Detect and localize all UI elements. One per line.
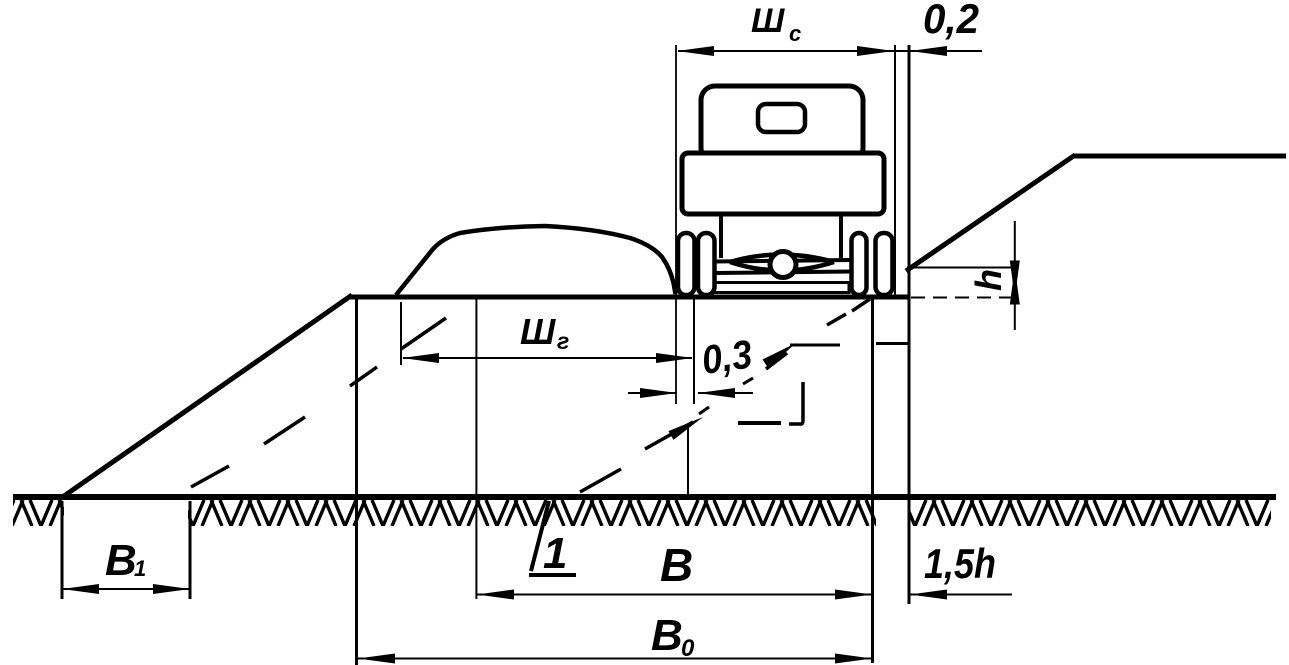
dashed slope line left d3 bbox=[350, 367, 377, 386]
dashed right small dash bbox=[743, 378, 753, 384]
dashed slope line left d2 bbox=[264, 417, 305, 444]
extension line x62 B1 left bbox=[61, 501, 64, 599]
truck chassis verticals bbox=[719, 214, 723, 258]
dashed diagonal to wheel d4 bbox=[827, 314, 846, 325]
dashed corner bottom dash bbox=[738, 421, 781, 425]
truck leaf spring lens bbox=[730, 255, 834, 271]
truck wheel outer-left bbox=[678, 233, 695, 295]
extension line x694 bbox=[693, 296, 695, 404]
svg-text:0,2: 0,2 bbox=[923, 0, 979, 42]
extension line x476 B left bbox=[475, 296, 477, 599]
svg-text:В: В bbox=[105, 536, 137, 585]
soil mound bbox=[396, 226, 676, 295]
truck wheel inner-right bbox=[852, 233, 867, 295]
extension line x895 truck right bbox=[894, 45, 896, 296]
dimension B1 line bbox=[63, 588, 189, 590]
dimension 0,3 lines bbox=[628, 392, 677, 394]
dashed diagonal to wheel d5 bbox=[852, 299, 870, 311]
truck cab bbox=[701, 86, 863, 162]
extension line x356 B0 left bbox=[355, 296, 358, 665]
truck wheel outer-right bbox=[876, 233, 893, 295]
right slope bbox=[906, 155, 1075, 271]
dimension Shg line bbox=[403, 357, 692, 359]
dimension 1,5h line bbox=[910, 594, 1012, 596]
extension line x190 B1 right bbox=[189, 501, 192, 599]
svg-text:h: h bbox=[968, 269, 1009, 291]
svg-text:1: 1 bbox=[134, 556, 146, 581]
truck rear window bbox=[758, 104, 805, 132]
svg-text:0: 0 bbox=[681, 635, 695, 662]
h extension top bbox=[907, 267, 1017, 269]
extension line x909 bbox=[908, 45, 911, 604]
svg-text:г: г bbox=[557, 328, 569, 354]
svg-text:Ш: Ш bbox=[520, 311, 556, 352]
dashed arrow right d2 shaft bbox=[645, 422, 693, 449]
truck differential bbox=[770, 252, 796, 278]
svg-text:0,3: 0,3 bbox=[699, 332, 755, 383]
left embankment slope bbox=[64, 295, 352, 496]
dashed slope line right d1 bbox=[580, 469, 621, 492]
svg-text:1: 1 bbox=[543, 529, 567, 578]
ground line bbox=[13, 494, 1276, 500]
embankment top surface bbox=[350, 295, 909, 300]
ground hatch center bbox=[188, 500, 876, 526]
dashed top horizontal d1 bbox=[790, 344, 840, 347]
truck bumper bar bbox=[714, 283, 849, 293]
extension line x688 lower bbox=[687, 425, 689, 497]
dimension 0,2 arrow bbox=[910, 46, 947, 56]
truck wheel inner-left bbox=[698, 233, 715, 295]
dashed slope line left d1 bbox=[191, 466, 229, 487]
dimension Shs line bbox=[678, 50, 982, 52]
dashed arrow right d3 shaft bbox=[766, 353, 787, 369]
truck body bbox=[682, 153, 884, 214]
ground hatch right bbox=[908, 500, 1271, 526]
extension line x676 truck left bbox=[675, 45, 677, 404]
svg-text:с: с bbox=[789, 21, 801, 46]
dashed slope line left d4 bbox=[401, 318, 446, 349]
dashed top horizontal d2 bbox=[876, 342, 909, 345]
extension line x872 B right bbox=[871, 296, 874, 663]
dashed arrow right d3 head bbox=[763, 339, 799, 368]
svg-text:Ш: Ш bbox=[751, 2, 785, 40]
dimension B line bbox=[477, 594, 872, 596]
dashed corner foot bbox=[789, 382, 803, 424]
svg-text:1,5h: 1,5h bbox=[924, 540, 996, 587]
right top line bbox=[1073, 154, 1286, 159]
truck axle lines bbox=[714, 260, 851, 262]
extension line x401 bbox=[400, 302, 402, 365]
dashed right small tick bbox=[699, 407, 709, 414]
svg-text:В: В bbox=[651, 611, 683, 660]
dashed arrow right d2 head bbox=[668, 413, 705, 440]
callout 1 leader bbox=[529, 501, 576, 575]
dimension h bbox=[1014, 221, 1016, 267]
ground hatch left of pit B1 bbox=[13, 500, 64, 526]
dimension B0 line bbox=[358, 658, 872, 660]
svg-text:В: В bbox=[660, 539, 693, 591]
h extension bottom dashed bbox=[911, 297, 1021, 299]
